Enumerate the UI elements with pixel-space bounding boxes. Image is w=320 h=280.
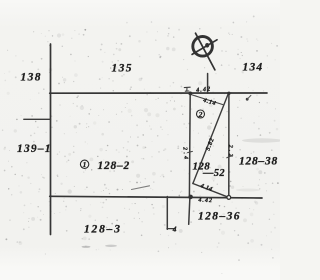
wire: parcel 128-52 east edge xyxy=(228,93,230,197)
wire: boundary line north (parcels 135/134 edge) xyxy=(50,92,267,94)
svg-text:134: 134 xyxy=(243,61,264,73)
node: tick crossing west edge of 128-52 xyxy=(188,151,193,152)
wire: stub above north boundary xyxy=(207,74,209,94)
svg-text:128–2: 128–2 xyxy=(98,160,131,172)
node: survey station circle symbol xyxy=(193,37,213,57)
svg-text:—52: —52 xyxy=(202,168,225,179)
wire: station symbol short diagonal xyxy=(192,40,217,55)
wire: station symbol long diagonal xyxy=(196,33,215,70)
svg-text:2.2: 2.2 xyxy=(227,144,233,159)
node: junction at SW corner of 128-52 xyxy=(188,195,193,200)
node: junction at NW corner of 128-52 xyxy=(188,92,192,96)
wire: stub below south boundary at x=167 xyxy=(166,197,168,230)
wire: stub below south boundary at x=189 xyxy=(189,197,190,224)
svg-text:4.42: 4.42 xyxy=(195,86,212,94)
svg-text:128–3: 128–3 xyxy=(84,224,122,236)
node: flag mark at NW corner junction xyxy=(184,87,190,91)
svg-text:4: 4 xyxy=(172,224,177,233)
svg-text:2: 2 xyxy=(198,110,203,119)
wire: faint stray stroke left of south boundary xyxy=(132,186,150,190)
node: tick right of east edge of 128-52 xyxy=(227,156,232,158)
node: eraser smudge left under 128-3 xyxy=(82,246,91,248)
svg-text:135: 135 xyxy=(112,62,133,74)
node: faint specks above 128-36 label xyxy=(219,205,221,207)
node: station symbol ink blob xyxy=(205,43,209,48)
svg-text:4.42: 4.42 xyxy=(197,197,213,204)
wire: short stub west of parcel 139-1 xyxy=(24,118,51,120)
wire: diagonal tie line (4.14 course, upper) xyxy=(190,94,223,104)
wire: diagonal divider (4.14 course, lower) xyxy=(193,184,229,198)
wire: boundary line west (parcel 138/139-1 edge) xyxy=(50,44,52,235)
svg-text:128–36: 128–36 xyxy=(198,210,241,222)
node: circled point number 2 xyxy=(197,110,205,118)
svg-text:139–1: 139–1 xyxy=(17,143,52,155)
node: junction at NE corner of 128-52 xyxy=(227,92,230,95)
node: open circle monument at SE corner of 128-52 xyxy=(227,196,231,200)
node: stray ink dot with tail right of NE corner xyxy=(246,98,249,101)
node: eraser smudge right under 128-3 xyxy=(105,245,117,247)
node: circled point number 1 xyxy=(80,160,88,168)
svg-text:138: 138 xyxy=(21,71,42,83)
wire: boundary line south (128-2/128-3 edge) xyxy=(50,196,262,198)
wire: diagonal divider (5.82 course) xyxy=(193,94,228,184)
wire: parcel 128-52 west edge xyxy=(188,93,191,196)
svg-text:1: 1 xyxy=(83,160,87,169)
wire: bracket tick for label 4 xyxy=(167,228,175,230)
svg-text:128–38: 128–38 xyxy=(239,156,278,168)
